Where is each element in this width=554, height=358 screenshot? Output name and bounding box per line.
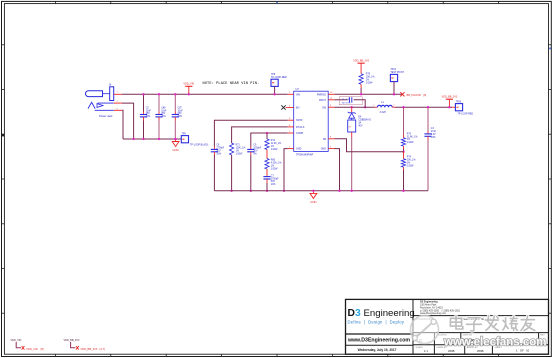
capacitor C9: [247, 145, 262, 191]
wire J6 pin2 to ground rail: [122, 103, 134, 139]
svg-text:50V 10%: 50V 10%: [342, 102, 351, 104]
svg-text:TP24: TP24: [390, 69, 396, 71]
wire C1 to SW: [354, 100, 366, 107]
net PWRGD wire: [335, 93, 403, 95]
svg-text:D3: D3: [348, 308, 361, 319]
svg-text:R74: R74: [407, 157, 412, 159]
svg-text:NOTE: PLACE NEAR VIN PIN.: NOTE: PLACE NEAR VIN PIN.: [203, 82, 260, 86]
U7 pin RT/CLK: [288, 126, 294, 128]
svg-text:1/10W: 1/10W: [236, 153, 243, 155]
svg-text:10%: 10%: [216, 153, 221, 155]
svg-text:Wednesday, July 19, 2017: Wednesday, July 19, 2017: [358, 348, 397, 352]
junction FB node: [402, 151, 404, 153]
off-page flag VDD_VIN: [11, 339, 44, 351]
svg-text:GND: GND: [321, 148, 327, 151]
svg-text:C87: C87: [178, 107, 183, 109]
ground: [172, 140, 179, 153]
svg-text:50V: 50V: [271, 181, 276, 183]
test point TP26: [455, 102, 462, 111]
wire COMP left: [251, 133, 288, 147]
junction: [273, 93, 275, 95]
svg-text:10%: 10%: [271, 184, 276, 186]
svg-text:1%: 1%: [271, 165, 274, 167]
svg-text:BB_PGOOD [6]: BB_PGOOD [6]: [407, 93, 427, 97]
svg-text:R71: R71: [236, 145, 241, 147]
no-connect X on EN: [281, 105, 285, 109]
wire U7 GND right to rail: [335, 149, 340, 191]
ground: [310, 191, 317, 204]
power flag VDD_BB_3V3: [441, 96, 457, 108]
svg-text:2700pF: 2700pF: [216, 148, 224, 150]
capacitor C8 2700pF: [211, 145, 225, 191]
svg-text:VDD_VIN: VDD_VIN: [183, 83, 194, 86]
junction: [132, 138, 134, 140]
watermark chinese characters: [450, 316, 534, 331]
resistor R72 11.0K: [265, 133, 281, 151]
svg-text:40V: 40V: [358, 125, 363, 127]
resistor R73 31.6K: [401, 107, 417, 152]
junction: [338, 190, 340, 192]
junction: [142, 138, 144, 140]
title block frame: [346, 299, 549, 354]
svg-text:CDBB340-G: CDBB340-G: [358, 120, 371, 122]
svg-text:SSTR: SSTR: [296, 119, 303, 122]
svg-text:1%: 1%: [407, 139, 410, 141]
svg-text:1/10W: 1/10W: [407, 142, 414, 144]
jack ground rail: [123, 138, 182, 140]
junction: [364, 106, 366, 108]
svg-text:TP-LOOP BLACK: TP-LOOP BLACK: [190, 143, 209, 146]
svg-text:10%: 10%: [431, 137, 436, 139]
capacitor C2 10uF: [140, 94, 152, 139]
connector J6 power jack: [86, 84, 119, 118]
junction: [351, 190, 353, 192]
capacitor C1 0.1uF boot: [339, 97, 362, 105]
svg-text:1%: 1%: [366, 79, 369, 81]
junction: [351, 106, 353, 108]
junction: [402, 106, 404, 108]
svg-text:VIN: VIN: [296, 93, 300, 96]
wire BOOT: [335, 99, 348, 101]
svg-text:www.D3Engineering.com: www.D3Engineering.com: [347, 338, 410, 344]
U7 pin SSTR: [288, 119, 294, 121]
svg-text:10uF: 10uF: [178, 110, 184, 112]
svg-text:1/10W: 1/10W: [271, 149, 278, 151]
wire FB feedback: [335, 139, 404, 152]
svg-text:10uF: 10uF: [161, 110, 167, 112]
svg-text:1%: 1%: [271, 146, 274, 148]
capacitor C7 2700pF: [263, 169, 279, 191]
svg-text:WDB: WDB: [448, 349, 455, 353]
svg-text:1%: 1%: [236, 150, 239, 152]
U7 pin BOOT: [328, 99, 334, 101]
net VDD_VIN top wire: [122, 93, 288, 95]
U7 pin EN: [288, 107, 294, 109]
watermark logo circle: [411, 316, 439, 344]
svg-text:25V: 25V: [161, 113, 166, 115]
svg-text:1000pF: 1000pF: [253, 148, 261, 150]
inductor L1 3.3uH: [373, 101, 395, 114]
resistor R71 110K: [230, 143, 246, 191]
TP8 stub: [274, 86, 276, 94]
capacitor C87 10uF: [172, 94, 184, 139]
svg-text:31.6K_1%: 31.6K_1%: [407, 136, 418, 138]
wire J6 pin3 to ground rail: [122, 110, 123, 139]
junction: [312, 190, 314, 192]
junction: [174, 138, 176, 140]
svg-text:25V: 25V: [146, 113, 151, 115]
net SW wire: [335, 106, 375, 108]
junction: [402, 190, 404, 192]
svg-text:2700pF: 2700pF: [271, 178, 279, 180]
svg-text:VDD_BB_3V3: VDD_BB_3V3: [64, 339, 80, 342]
diode D4 catch: [348, 107, 372, 191]
U7 pin FB: [328, 138, 334, 140]
resistor R85 4.02K: [265, 150, 282, 171]
svg-text:20%: 20%: [146, 116, 151, 118]
svg-text:R85: R85: [271, 160, 276, 162]
svg-text:R73: R73: [407, 133, 412, 135]
U7 pin VIN: [288, 93, 294, 95]
scale/drawn/approved/sheet row: [416, 346, 503, 349]
svg-text:1:1: 1:1: [424, 349, 428, 353]
test point TP8: [271, 74, 287, 87]
J6 pin 1 lead: [114, 93, 122, 95]
svg-text:VDD_BB_3V3 [4,7]: VDD_BB_3V3 [4,7]: [80, 347, 105, 351]
svg-text:VDD_BB_3V3: VDD_BB_3V3: [353, 60, 369, 63]
power flag VDD_BB_3V3: [353, 60, 369, 67]
svg-text:3.3uH: 3.3uH: [380, 111, 387, 114]
test point TP9: [181, 134, 188, 143]
svg-text:50V: 50V: [216, 150, 221, 152]
svg-text:20%: 20%: [178, 116, 183, 118]
svg-text:WDB: WDB: [477, 349, 484, 353]
svg-text:EN: EN: [296, 107, 300, 110]
svg-text:R72: R72: [271, 140, 276, 142]
junction: [158, 138, 160, 140]
svg-text:Power Jack: Power Jack: [99, 114, 113, 118]
svg-text:11.0K_1%: 11.0K_1%: [271, 143, 281, 145]
op-amp/regulator U7 TPS54340 body: [294, 87, 329, 157]
svg-text:C1 .1uF: C1 .1uF: [342, 99, 350, 101]
svg-text:www.elecfans.com: www.elecfans.com: [443, 337, 546, 349]
svg-text:BOOT: BOOT: [319, 99, 326, 102]
net VDD_BB_3V3 output wire: [395, 106, 452, 108]
svg-text:1/10W: 1/10W: [407, 165, 414, 167]
svg-text:C88: C88: [161, 107, 166, 109]
svg-text:1%: 1%: [407, 162, 410, 164]
svg-text:TP-LOOP-RED: TP-LOOP-RED: [271, 77, 287, 79]
svg-text:TP8: TP8: [271, 74, 276, 76]
wire RT/CLK to R71: [232, 127, 288, 143]
svg-text:10K_1%: 10K_1%: [366, 77, 375, 79]
U7 pin SW: [328, 106, 334, 108]
U7 pin PWRGD: [328, 93, 334, 95]
svg-text:1 OF 10: 1 OF 10: [516, 348, 530, 352]
svg-text:GND: GND: [172, 148, 178, 152]
junction: [266, 190, 268, 192]
svg-text:47uF: 47uF: [431, 131, 437, 133]
D3 Engineering logo: [348, 308, 415, 325]
svg-text:10uF: 10uF: [146, 110, 152, 112]
svg-text:COMP: COMP: [296, 132, 304, 135]
off-page connector BB_PGOOD: [400, 92, 426, 97]
capacitor C3 47uF: [424, 107, 436, 191]
U7 pin GND left: [288, 148, 294, 150]
resistor R74 10K: [401, 152, 415, 191]
svg-text:U7: U7: [296, 87, 300, 91]
svg-text:TPS54340PWP: TPS54340PWP: [296, 153, 314, 156]
test point TP24: [390, 69, 404, 82]
size/fscm/dwg/rev row: [416, 335, 546, 337]
svg-text:10K_1%: 10K_1%: [407, 160, 416, 162]
svg-text:VDD_VIN: VDD_VIN: [11, 339, 22, 342]
svg-text:5%: 5%: [253, 153, 256, 155]
svg-text:3A: 3A: [358, 121, 361, 124]
svg-text:SCALE: SCALE: [416, 346, 424, 349]
off-page flag VDD_BB_3V3: [64, 339, 106, 351]
svg-text:20%: 20%: [161, 116, 166, 118]
wire U7 GND left to rail: [284, 149, 288, 191]
svg-text:TP26: TP26: [456, 102, 462, 104]
junction: [174, 138, 176, 140]
svg-text:R76: R76: [366, 74, 371, 76]
junction: [230, 190, 232, 192]
svg-text:110K_1%: 110K_1%: [236, 148, 246, 150]
svg-text:FB: FB: [323, 138, 326, 141]
junction: [188, 93, 190, 95]
svg-text:1/10W: 1/10W: [271, 168, 278, 170]
main ground rail: [214, 190, 428, 192]
svg-text:TP-LOOP-RED: TP-LOOP-RED: [458, 114, 474, 116]
U7 pin GND right: [328, 148, 334, 150]
junction: [427, 106, 429, 108]
company info block: [420, 301, 461, 316]
resistor R76 10K pull-up: [359, 67, 374, 94]
J6 pin 3 lead: [114, 109, 122, 111]
capacitor C88 10uF: [155, 94, 167, 139]
svg-text:PWRGD: PWRGD: [317, 93, 326, 96]
J6 pin 2 lead: [114, 102, 122, 104]
svg-text:1/10W: 1/10W: [366, 82, 373, 84]
svg-text:50V: 50V: [253, 150, 258, 152]
svg-text:GND: GND: [296, 148, 302, 151]
svg-text:Engineering: Engineering: [364, 308, 415, 319]
junction: [448, 106, 450, 108]
junction COMP chain: [266, 132, 268, 134]
svg-text:25V: 25V: [178, 113, 183, 115]
junction: [174, 93, 176, 95]
junction: [283, 190, 285, 192]
wire SSTR to C8: [214, 120, 287, 146]
svg-text:GND: GND: [310, 200, 316, 204]
junction: [158, 93, 160, 95]
junction: [250, 190, 252, 192]
power flag VDD_VIN: [183, 83, 194, 95]
svg-text:6.3V: 6.3V: [431, 134, 436, 136]
svg-text:VDD_VIN [8]: VDD_VIN [8]: [26, 347, 44, 351]
svg-text:TEST POINT: TEST POINT: [390, 72, 404, 74]
svg-text:4.02K_1%: 4.02K_1%: [271, 163, 282, 165]
svg-text:VDD_BB_3V3: VDD_BB_3V3: [441, 96, 457, 99]
junction: [360, 93, 362, 95]
junction: [142, 93, 144, 95]
TP24 stub: [393, 82, 395, 95]
junction: [393, 93, 395, 95]
svg-text:Define | Design | Deploy: Define | Design | Deploy: [348, 319, 405, 324]
svg-text:RT/CLK: RT/CLK: [296, 126, 305, 129]
svg-text:TP9: TP9: [182, 134, 187, 136]
U7 pin COMP: [288, 132, 294, 134]
